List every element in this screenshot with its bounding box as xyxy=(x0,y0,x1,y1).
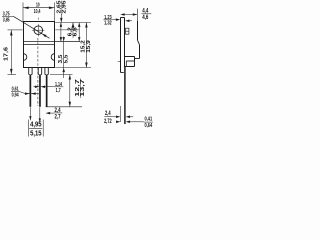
svg-text:13,7: 13,7 xyxy=(80,79,86,97)
svg-text:4,4: 4,4 xyxy=(142,8,149,14)
svg-text:10,4: 10,4 xyxy=(34,9,41,15)
svg-text:17,6: 17,6 xyxy=(4,47,10,61)
svg-text:1,32: 1,32 xyxy=(104,21,112,27)
svg-text:4,6: 4,6 xyxy=(142,15,149,21)
svg-text:1,7: 1,7 xyxy=(56,88,61,94)
svg-text:2,4: 2,4 xyxy=(105,111,111,117)
svg-text:0,64: 0,64 xyxy=(145,123,153,129)
svg-text:3,85: 3,85 xyxy=(3,17,10,23)
svg-text:2,7: 2,7 xyxy=(55,115,61,121)
svg-text:15,9: 15,9 xyxy=(86,40,92,53)
svg-text:2,72: 2,72 xyxy=(104,119,112,125)
svg-text:10: 10 xyxy=(36,3,40,9)
svg-text:5,15: 5,15 xyxy=(30,129,41,138)
svg-text:2,95: 2,95 xyxy=(61,1,67,14)
svg-text:4,95: 4,95 xyxy=(30,120,41,129)
svg-text:6,6: 6,6 xyxy=(73,27,79,36)
svg-text:5,5: 5,5 xyxy=(63,55,69,64)
svg-text:0,41: 0,41 xyxy=(145,117,153,123)
svg-text:0,94: 0,94 xyxy=(12,93,19,99)
